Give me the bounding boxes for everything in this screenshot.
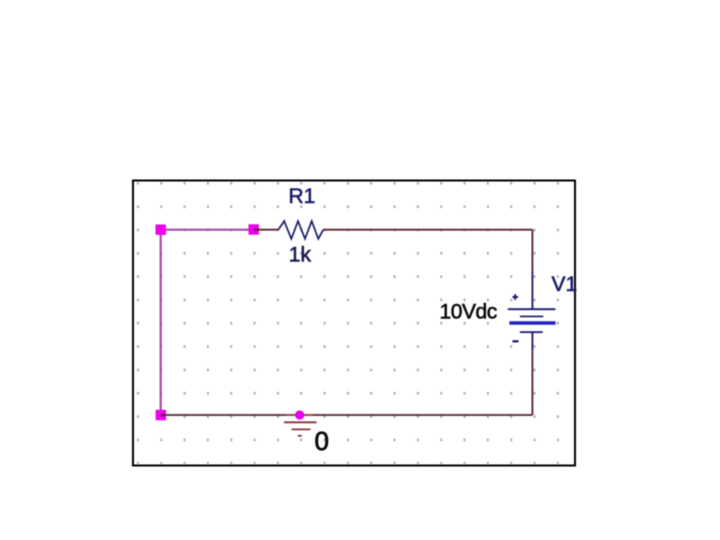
wire: selected left vertical segment <box>160 230 162 415</box>
svg-text:R1: R1 <box>289 185 316 208</box>
V1 minus mark <box>513 340 519 342</box>
V1 plus mark <box>513 296 519 298</box>
ground net label 0 <box>315 426 329 456</box>
svg-text:0: 0 <box>315 426 329 456</box>
wire: selected top-left horizontal segment <box>161 229 254 231</box>
wire: right vertical lower (battery - pin to bottom corner) <box>531 350 533 415</box>
V1 designator label <box>552 273 578 296</box>
node: vertex handle top-left corner <box>156 225 166 235</box>
ground symbol 0 <box>284 422 317 436</box>
resistor R1 <box>278 221 323 239</box>
wire: resistor left lead <box>254 229 279 231</box>
R1 value label 1k <box>289 244 312 267</box>
svg-text:10Vdc: 10Vdc <box>440 301 497 324</box>
V1 value label 10Vdc <box>440 301 497 324</box>
wire: top horizontal to right corner <box>323 229 532 231</box>
node: junction dot at ground <box>295 410 304 419</box>
svg-text:1k: 1k <box>289 244 312 267</box>
wire: red tinge near junction <box>286 414 313 416</box>
node: vertex handle bottom-left corner <box>156 410 166 420</box>
wire: bottom horizontal <box>161 414 533 416</box>
battery V1 (DC voltage source) <box>508 271 556 350</box>
R1 designator label <box>289 185 316 208</box>
svg-text:V1: V1 <box>552 273 578 296</box>
wire: right vertical upper (to battery + pin) <box>531 230 533 271</box>
node: vertex handle at resistor left pin <box>249 224 259 234</box>
